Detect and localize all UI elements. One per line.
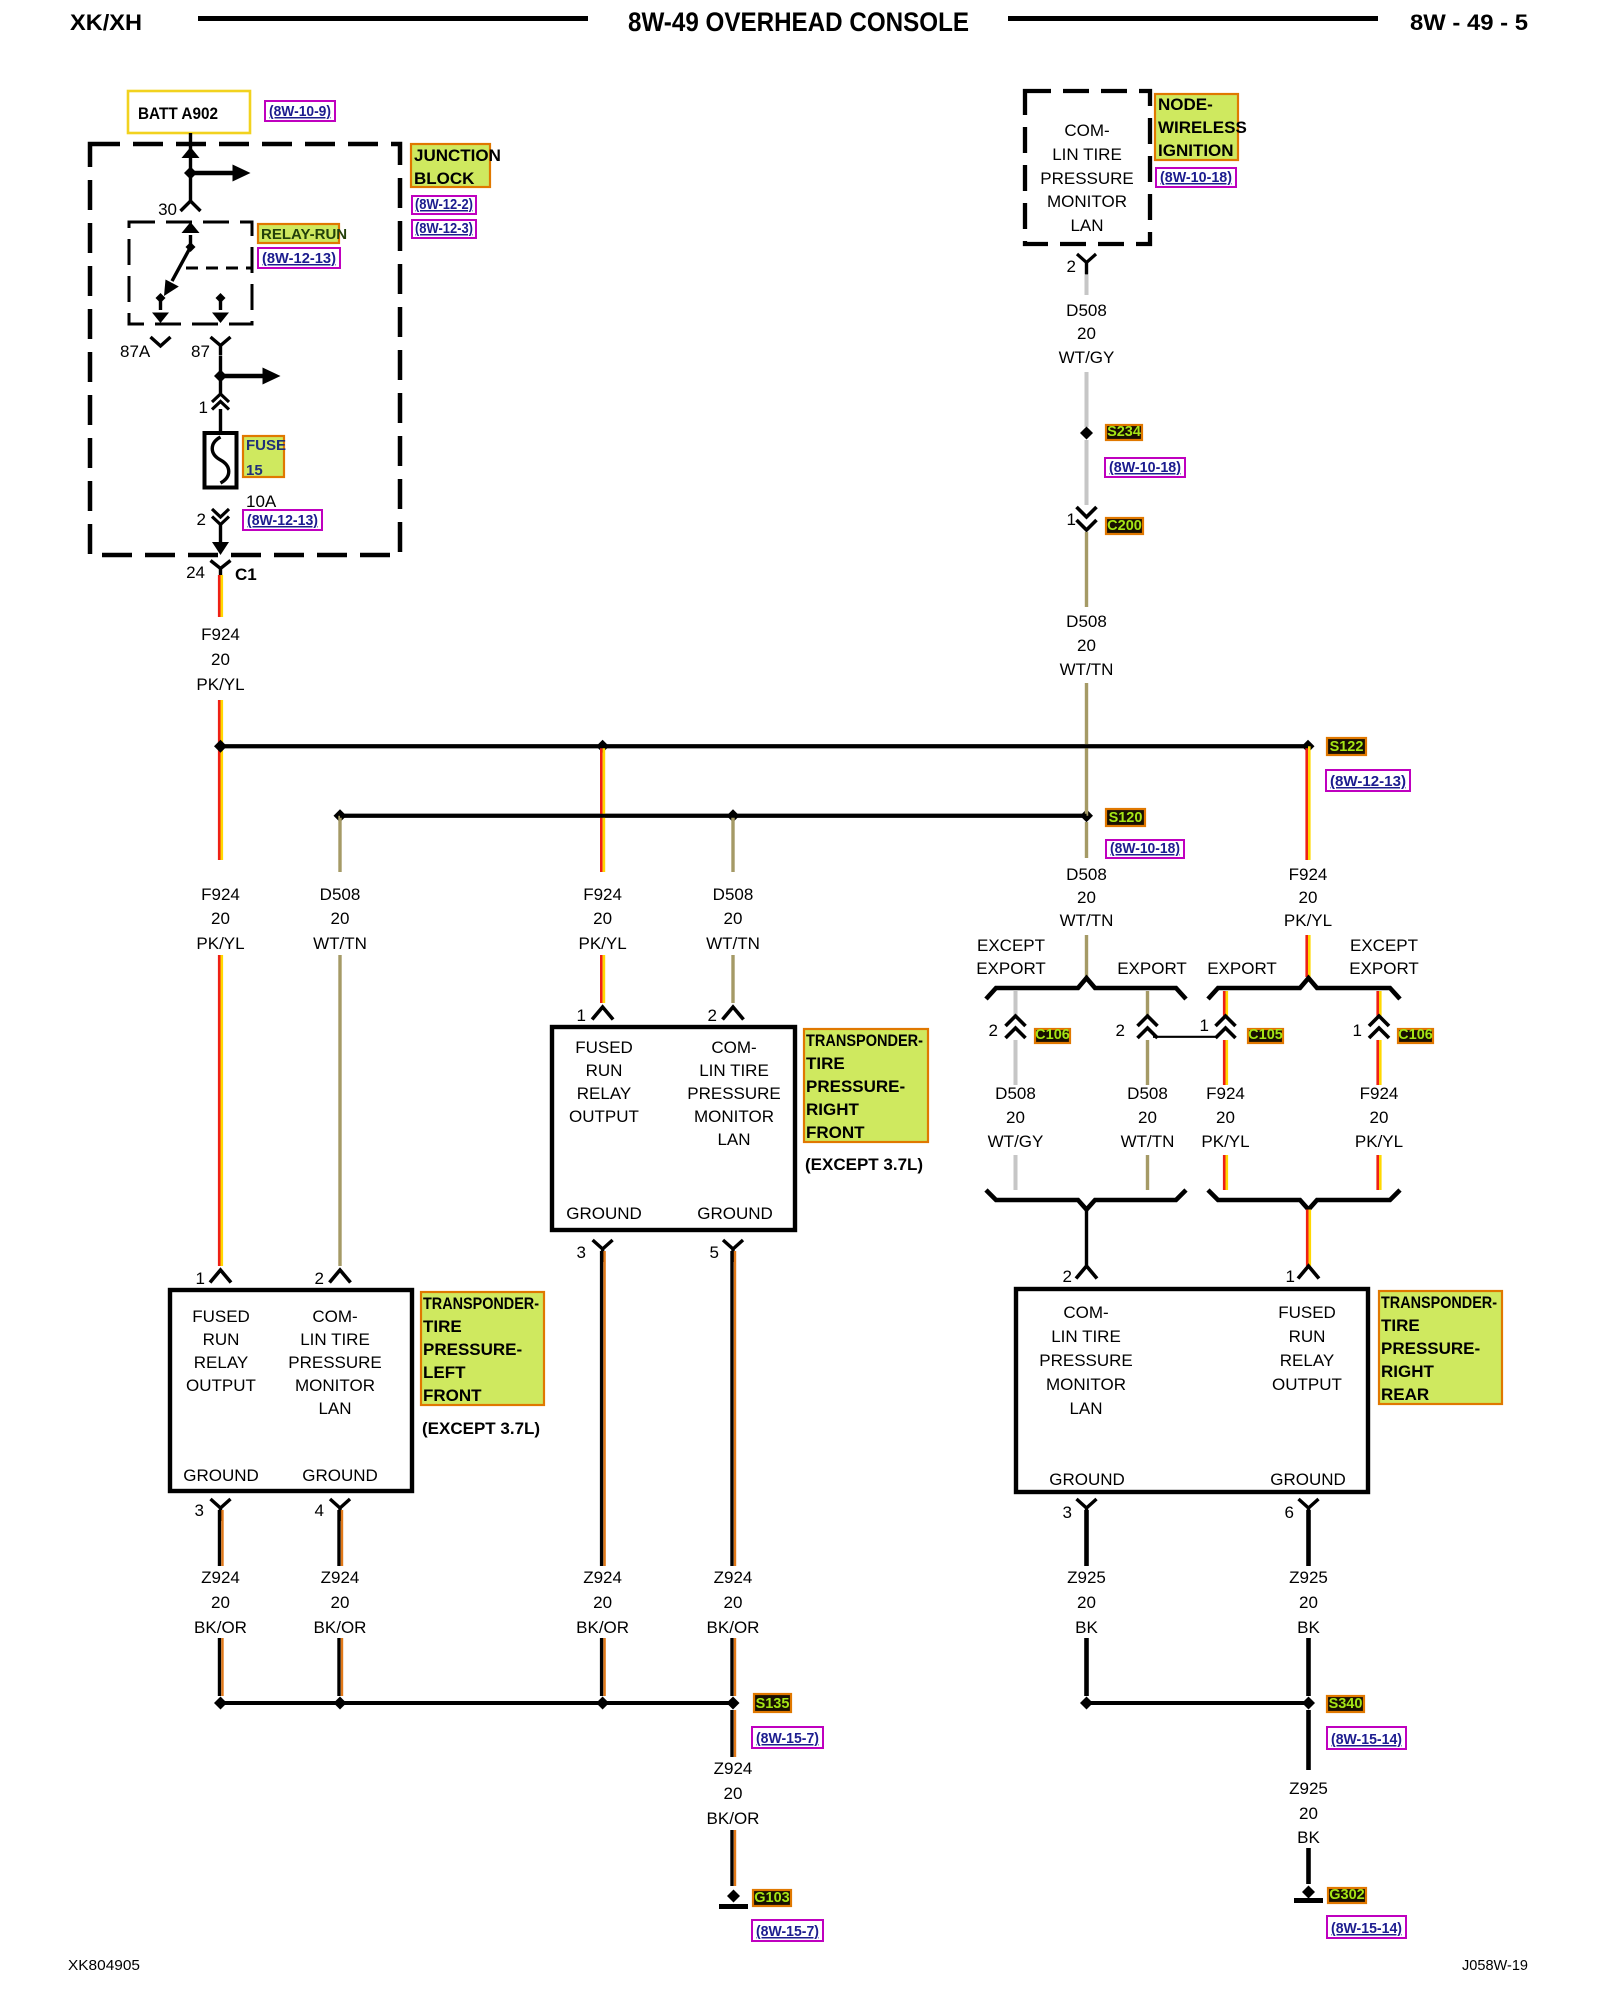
svg-text:EXPORT: EXPORT: [1117, 959, 1187, 978]
svg-text:COM-: COM-: [312, 1307, 357, 1326]
splice rail S122: [221, 744, 1309, 748]
svg-text:2: 2: [1116, 1021, 1125, 1040]
transponder left front pin 2 connector: [330, 1270, 351, 1283]
wire Z924 BK/OR from pin 3 x=602.6: [600, 1251, 603, 1566]
svg-text:WT/TN: WT/TN: [1060, 660, 1114, 679]
svg-text:20: 20: [593, 1593, 612, 1612]
svg-text:WT/TN: WT/TN: [1060, 911, 1114, 930]
link 8W-15-14 G302: [1327, 1916, 1406, 1938]
svg-text:87A: 87A: [120, 342, 151, 361]
wire fuse to junction block edge: [219, 524, 222, 546]
svg-text:20: 20: [1216, 1108, 1235, 1127]
wire relay 87 to fuse: [219, 356, 222, 394]
svg-text:RUN: RUN: [203, 1330, 240, 1349]
relay contact 87 node: [216, 293, 226, 303]
svg-text:1: 1: [1067, 510, 1076, 529]
splice label S234: [1106, 425, 1142, 440]
svg-text:(8W-10-18): (8W-10-18): [1109, 459, 1181, 476]
junction node battery feed: [184, 167, 197, 180]
branch wire F924 PK/YL below connector: [1223, 1040, 1226, 1085]
svg-text:20: 20: [211, 909, 230, 928]
svg-text:GROUND: GROUND: [1270, 1470, 1346, 1489]
relay-run label RELAY-RUN: [258, 224, 339, 243]
svg-text:(8W-12-13): (8W-12-13): [262, 250, 336, 267]
splice rail S122 overlay: [221, 744, 1309, 748]
svg-text:PRESSURE: PRESSURE: [1039, 1351, 1133, 1370]
wire D508 WT/GY segment 2: [1085, 372, 1089, 427]
wire F924 segment C1 down: [218, 575, 221, 617]
svg-text:WT/TN: WT/TN: [1121, 1132, 1175, 1151]
brace top right: [1208, 978, 1400, 999]
branch wire F924 PK/YL stub above connector: [1223, 991, 1226, 1016]
svg-text:2: 2: [197, 510, 206, 529]
svg-text:20: 20: [331, 909, 350, 928]
relay armature diagonal: [172, 247, 191, 281]
svg-text:Z925: Z925: [1289, 1779, 1328, 1798]
svg-text:NODE-: NODE-: [1158, 95, 1213, 114]
connector label C106: [1398, 1029, 1433, 1043]
svg-text:(8W-12-13): (8W-12-13): [247, 512, 318, 529]
svg-text:10A: 10A: [246, 492, 277, 511]
svg-text:3: 3: [577, 1243, 586, 1262]
svg-text:TRANSPONDER-: TRANSPONDER-: [423, 1294, 539, 1313]
svg-text:Z925: Z925: [1289, 1568, 1328, 1587]
transponder right front box: [552, 1027, 795, 1230]
splice label S340: [1327, 1696, 1364, 1712]
svg-text:PK/YL: PK/YL: [1284, 911, 1332, 930]
link 8W-12-2: [412, 196, 476, 214]
svg-text:S120: S120: [1109, 810, 1143, 826]
svg-text:20: 20: [211, 1593, 230, 1612]
svg-text:Z925: Z925: [1067, 1568, 1106, 1587]
svg-text:LEFT: LEFT: [423, 1363, 466, 1382]
ground label G103: [753, 1890, 791, 1906]
svg-text:20: 20: [1299, 888, 1318, 907]
svg-text:COM-: COM-: [711, 1038, 756, 1057]
svg-text:J058W-19: J058W-19: [1462, 1957, 1528, 1974]
svg-text:20: 20: [1077, 636, 1096, 655]
splice rail S135: [221, 1701, 734, 1705]
svg-text:BK/OR: BK/OR: [314, 1618, 367, 1637]
svg-text:G103: G103: [754, 1890, 789, 1906]
svg-text:TIRE: TIRE: [423, 1317, 462, 1336]
wire D508 left branch upper: [338, 816, 341, 872]
svg-text:FUSED: FUSED: [192, 1307, 250, 1326]
svg-text:LIN TIRE: LIN TIRE: [1052, 145, 1122, 164]
brace bottom left: [986, 1190, 1186, 1210]
svg-text:(8W-15-14): (8W-15-14): [1331, 1731, 1402, 1748]
svg-text:(EXCEPT 3.7L): (EXCEPT 3.7L): [805, 1155, 923, 1174]
svg-text:RIGHT: RIGHT: [806, 1100, 860, 1119]
wire battery feed into junction block: [189, 133, 192, 163]
svg-text:2: 2: [1067, 257, 1076, 276]
svg-text:20: 20: [1299, 1804, 1318, 1823]
ground G302 symbol: [1302, 1886, 1315, 1899]
svg-text:PK/YL: PK/YL: [1201, 1132, 1249, 1151]
branch connector chevron 3: [1216, 1016, 1236, 1026]
transponder left front pin 3 connector: [211, 1499, 231, 1508]
transponder right rear pin 6 connector: [1299, 1499, 1319, 1508]
svg-text:EXCEPT: EXCEPT: [1350, 936, 1418, 955]
wire fuse pin1 to fuse: [219, 409, 222, 433]
svg-text:6: 6: [1285, 1503, 1294, 1522]
svg-text:TIRE: TIRE: [806, 1054, 845, 1073]
svg-text:20: 20: [1077, 1593, 1096, 1612]
svg-text:(8W-10-18): (8W-10-18): [1110, 840, 1180, 857]
link 8W-15-7 G103: [752, 1920, 823, 1941]
svg-text:S234: S234: [1107, 424, 1141, 440]
brace top left: [986, 978, 1186, 999]
svg-text:WIRELESS: WIRELESS: [1158, 118, 1247, 137]
svg-text:2: 2: [708, 1006, 717, 1025]
transponder left front label: [421, 1292, 544, 1405]
node-wireless ignition dashed box: [1025, 91, 1150, 244]
splice node S135 x=340: [334, 1697, 347, 1710]
wire F924 right to brace: [1305, 935, 1308, 977]
arrowhead battery feed up: [182, 147, 200, 158]
svg-text:F924: F924: [1206, 1084, 1245, 1103]
svg-text:EXCEPT: EXCEPT: [977, 936, 1045, 955]
wire D508 WT/TN to S120: [1085, 683, 1088, 816]
relay pin 87A connector: [151, 337, 171, 346]
svg-text:BK: BK: [1297, 1828, 1320, 1847]
svg-text:3: 3: [1063, 1503, 1072, 1522]
branch wire F924 PK/YL below connector: [1376, 1040, 1379, 1085]
svg-text:1: 1: [196, 1269, 205, 1288]
wire Z924 BK/OR from pin 4 x=340: [337, 1510, 340, 1566]
wire Z924 BK/OR from pin 5 x=733: [730, 1251, 733, 1566]
svg-text:Z924: Z924: [201, 1568, 240, 1587]
transponder right front pin 2 connector: [723, 1007, 744, 1020]
branch wire D508 WT/GY stub above connector: [1014, 991, 1018, 1016]
splice rail S120 overlay: [340, 814, 1087, 818]
branch connector chevron 1: [1006, 1016, 1026, 1026]
svg-text:RELAY: RELAY: [194, 1353, 249, 1372]
splice node S122 right: [1302, 740, 1315, 753]
wire Z925 BK to ground G302: [1306, 1848, 1311, 1884]
svg-text:EXPORT: EXPORT: [976, 959, 1046, 978]
transponder right rear label: [1379, 1291, 1502, 1404]
branch connector chevron 4: [1369, 1016, 1389, 1026]
svg-text:MONITOR: MONITOR: [1047, 192, 1127, 211]
fuse pin 1 connector: [212, 394, 229, 402]
transponder right front pin 1 connector: [592, 1007, 613, 1020]
svg-text:PRESSURE: PRESSURE: [687, 1084, 781, 1103]
link 8W-12-13 S122: [1326, 770, 1410, 791]
svg-text:S340: S340: [1329, 1696, 1363, 1712]
svg-text:F924: F924: [201, 625, 240, 644]
transponder left front pin 1 connector: [210, 1270, 231, 1283]
svg-text:20: 20: [1299, 1593, 1318, 1612]
svg-text:WT/GY: WT/GY: [988, 1132, 1044, 1151]
svg-text:IGNITION: IGNITION: [1158, 141, 1234, 160]
svg-text:OUTPUT: OUTPUT: [186, 1376, 256, 1395]
wire Z924 BK/OR from pin 3 x=220.5: [218, 1510, 221, 1566]
connector C200 label: [1106, 518, 1143, 534]
ground label G302: [1328, 1888, 1366, 1903]
svg-text:MONITOR: MONITOR: [694, 1107, 774, 1126]
svg-text:C106: C106: [1035, 1027, 1070, 1043]
svg-text:MONITOR: MONITOR: [1046, 1375, 1126, 1394]
connector label C105: [1248, 1029, 1283, 1043]
svg-text:C1: C1: [235, 565, 257, 584]
relay internal dashed line: [186, 267, 252, 270]
splice node S120 left: [334, 809, 347, 822]
branch wire F924 PK/YL stub above connector: [1376, 991, 1379, 1016]
svg-text:RELAY: RELAY: [577, 1084, 632, 1103]
svg-text:8W - 49 - 5: 8W - 49 - 5: [1410, 10, 1528, 35]
transponder right front pin 5 connector: [723, 1240, 743, 1249]
svg-text:PK/YL: PK/YL: [1355, 1132, 1403, 1151]
link 8W-10-18 S234: [1105, 458, 1185, 477]
svg-text:OUTPUT: OUTPUT: [1272, 1375, 1342, 1394]
svg-text:LIN TIRE: LIN TIRE: [1051, 1327, 1121, 1346]
page header title rule left: [198, 16, 588, 21]
jog line between export connectors: [1153, 1036, 1217, 1038]
svg-text:D508: D508: [1127, 1084, 1168, 1103]
splice rail S340: [1087, 1701, 1309, 1705]
svg-text:(8W-12-13): (8W-12-13): [1330, 773, 1406, 790]
wire F924 right from S122: [1305, 746, 1308, 860]
wire D508 mid branch upper: [731, 816, 734, 872]
svg-text:(8W-15-7): (8W-15-7): [756, 1730, 819, 1747]
splice node S122 left: [214, 740, 227, 753]
branch wire D508 WT/GY above lower brace: [1014, 1155, 1018, 1190]
svg-text:PRESSURE-: PRESSURE-: [1381, 1339, 1480, 1358]
svg-text:20: 20: [211, 650, 230, 669]
svg-text:Z924: Z924: [714, 1759, 753, 1778]
arrow branch feed right: [191, 171, 233, 176]
svg-text:OUTPUT: OUTPUT: [569, 1107, 639, 1126]
svg-text:20: 20: [724, 1784, 743, 1803]
wire Z925 BK to splice S340 x=1308.5: [1306, 1638, 1311, 1696]
svg-text:C106: C106: [1398, 1027, 1433, 1043]
splice rail S120: [340, 814, 1087, 818]
arrowhead junction block output down: [212, 542, 229, 555]
svg-text:D508: D508: [1066, 612, 1107, 631]
svg-text:1: 1: [199, 398, 208, 417]
svg-text:LIN TIRE: LIN TIRE: [699, 1061, 769, 1080]
transponder left front pin 4 connector: [330, 1499, 350, 1508]
svg-text:20: 20: [593, 909, 612, 928]
svg-text:WT/GY: WT/GY: [1059, 348, 1115, 367]
node pin 2 connector: [1077, 254, 1096, 263]
wire F924 segment to S122: [218, 700, 221, 860]
transponder right front label: [804, 1029, 928, 1142]
link 8W-10-18 node: [1156, 168, 1236, 187]
svg-text:LAN: LAN: [1069, 1399, 1102, 1418]
svg-text:RUN: RUN: [1289, 1327, 1326, 1346]
wire F924 segment to left transponder: [218, 955, 221, 1266]
wire F924 to right-rear pin 1: [1306, 1210, 1309, 1267]
splice node S340 right: [1302, 1697, 1315, 1710]
transponder right front pin 3 connector: [593, 1240, 613, 1249]
svg-text:D508: D508: [1066, 865, 1107, 884]
branch wire D508 WT/GY below connector: [1014, 1040, 1018, 1085]
wire Z925 BK to splice S340 x=1086.5: [1084, 1638, 1089, 1696]
battery feed box BATT A902: [128, 91, 250, 133]
connector C1 pin 24 symbol: [211, 561, 231, 569]
branch connector chevron 2: [1138, 1016, 1158, 1026]
svg-text:RIGHT: RIGHT: [1381, 1362, 1435, 1381]
svg-text:C200: C200: [1107, 518, 1142, 534]
splice node S135 x=602.6: [596, 1697, 609, 1710]
link 8W-10-18 S120: [1106, 840, 1184, 858]
svg-text:(8W-12-3): (8W-12-3): [415, 220, 473, 237]
wire D508 left branch lower: [338, 955, 341, 1266]
svg-text:(8W-15-14): (8W-15-14): [1331, 1920, 1402, 1937]
fuse F15 body: [205, 433, 237, 488]
svg-text:D508: D508: [995, 1084, 1036, 1103]
svg-text:3: 3: [195, 1501, 204, 1520]
svg-text:FUSED: FUSED: [575, 1038, 633, 1057]
svg-text:WT/TN: WT/TN: [706, 934, 760, 953]
svg-text:GROUND: GROUND: [566, 1204, 642, 1223]
svg-text:20: 20: [1077, 888, 1096, 907]
svg-text:C105: C105: [1248, 1027, 1283, 1043]
svg-text:EXPORT: EXPORT: [1349, 959, 1419, 978]
branch wire D508 WT/TN below connector: [1146, 1040, 1149, 1085]
svg-text:30: 30: [158, 200, 177, 219]
branch wire D508 WT/TN stub above connector: [1146, 991, 1149, 1016]
relay coil arrow up: [182, 222, 200, 233]
svg-text:87: 87: [191, 342, 210, 361]
svg-text:LIN TIRE: LIN TIRE: [300, 1330, 370, 1349]
svg-text:PRESSURE: PRESSURE: [1040, 169, 1134, 188]
fuse label FUSE 15: [243, 436, 284, 477]
svg-text:20: 20: [724, 1593, 743, 1612]
transponder left front box: [170, 1290, 412, 1491]
link 8W-12-13 relay: [258, 248, 340, 268]
svg-text:LAN: LAN: [318, 1399, 351, 1418]
svg-text:XK804905: XK804905: [68, 1957, 140, 1974]
wire D508 mid branch lower: [731, 955, 734, 1003]
transponder right rear pin 1 connector: [1298, 1266, 1319, 1279]
relay contact 87A node: [156, 293, 166, 303]
relay armature pivot: [186, 242, 196, 252]
svg-text:GROUND: GROUND: [302, 1466, 378, 1485]
link 8W-10-9: [265, 101, 335, 121]
transponder right rear pin 3 connector: [1077, 1499, 1097, 1508]
junction block dashed outline: [90, 144, 400, 555]
wire F924 mid branch lower: [600, 955, 603, 1003]
svg-text:1: 1: [577, 1006, 586, 1025]
svg-text:2: 2: [315, 1269, 324, 1288]
svg-text:FRONT: FRONT: [806, 1123, 865, 1142]
svg-text:PRESSURE: PRESSURE: [288, 1353, 382, 1372]
svg-text:15: 15: [246, 462, 263, 479]
svg-text:BK: BK: [1297, 1618, 1320, 1637]
branch wire F924 PK/YL above lower brace: [1223, 1155, 1226, 1190]
svg-text:20: 20: [1370, 1108, 1389, 1127]
svg-text:20: 20: [1077, 324, 1096, 343]
splice node S122 mid: [596, 740, 609, 753]
ground G103 symbol: [727, 1890, 740, 1903]
svg-text:D508: D508: [713, 885, 754, 904]
wire Z924 BK/OR to splice S135 x=220.5: [218, 1638, 221, 1696]
svg-text:D508: D508: [1066, 301, 1107, 320]
arrow branch 87 right: [221, 374, 263, 379]
svg-text:PK/YL: PK/YL: [196, 934, 244, 953]
relay contact 87 arrow down: [219, 298, 222, 310]
svg-text:EXPORT: EXPORT: [1207, 959, 1277, 978]
svg-text:GROUND: GROUND: [183, 1466, 259, 1485]
svg-text:1: 1: [1200, 1016, 1209, 1035]
wire feed to relay pin 30: [189, 163, 192, 201]
wire Z925 BK below S340: [1306, 1710, 1311, 1770]
splice node S135 x=220.5: [214, 1697, 227, 1710]
link 8W-12-13 fuse: [243, 510, 322, 530]
svg-text:F924: F924: [201, 885, 240, 904]
wire Z924 BK/OR to splice S135 x=733: [730, 1638, 733, 1696]
svg-text:D508: D508: [320, 885, 361, 904]
splice node S135 x=733: [727, 1697, 740, 1710]
wire D508 WT/GY segment 3: [1085, 440, 1089, 505]
link 8W-15-14 S340: [1327, 1727, 1406, 1749]
splice label S120: [1106, 809, 1145, 826]
svg-text:20: 20: [1006, 1108, 1025, 1127]
svg-text:GROUND: GROUND: [697, 1204, 773, 1223]
connector label C106: [1035, 1029, 1070, 1043]
svg-text:PRESSURE-: PRESSURE-: [423, 1340, 522, 1359]
svg-text:PRESSURE-: PRESSURE-: [806, 1077, 905, 1096]
svg-text:RELAY-RUN: RELAY-RUN: [261, 226, 347, 243]
junction node 87 branch: [214, 370, 227, 383]
branch wire D508 WT/TN above lower brace: [1146, 1155, 1149, 1190]
relay contact 87A arrow down: [159, 298, 162, 310]
svg-text:2: 2: [1063, 1267, 1072, 1286]
splice node S234: [1080, 427, 1093, 440]
svg-text:BK/OR: BK/OR: [576, 1618, 629, 1637]
transponder right rear pin 2 connector: [1076, 1266, 1097, 1279]
relay pin 30 connector: [181, 201, 201, 211]
wire Z924 BK/OR to ground G103: [730, 1830, 733, 1886]
brace bottom right: [1208, 1190, 1400, 1210]
svg-text:MONITOR: MONITOR: [295, 1376, 375, 1395]
svg-text:TIRE: TIRE: [1381, 1316, 1420, 1335]
wire Z924 BK/OR to splice S135 x=602.6: [600, 1638, 603, 1696]
wire Z924 BK/OR below S135: [730, 1710, 733, 1757]
wire D508 WT/TN to brace: [1085, 935, 1088, 977]
link 8W-12-3: [412, 220, 476, 238]
wire Z925 BK from pin 6 x=1308.5: [1306, 1510, 1311, 1566]
page header title rule right: [1008, 16, 1378, 21]
svg-text:(EXCEPT 3.7L): (EXCEPT 3.7L): [422, 1419, 540, 1438]
svg-text:BK: BK: [1075, 1618, 1098, 1637]
svg-text:BLOCK: BLOCK: [414, 169, 475, 188]
wire Z925 BK from pin 3 x=1086.5: [1084, 1510, 1089, 1566]
svg-text:COM-: COM-: [1064, 121, 1109, 140]
splice label S122: [1327, 738, 1366, 755]
relay-run dashed outline: [129, 222, 252, 324]
svg-text:FRONT: FRONT: [423, 1386, 482, 1405]
svg-text:BK/OR: BK/OR: [707, 1809, 760, 1828]
svg-text:(8W-15-7): (8W-15-7): [756, 1923, 819, 1940]
svg-text:TRANSPONDER-: TRANSPONDER-: [806, 1031, 923, 1050]
wire D508 WT/TN below S120: [1085, 822, 1088, 858]
transponder right rear box: [1016, 1289, 1368, 1492]
link 8W-15-7 S135: [752, 1727, 823, 1748]
svg-text:LAN: LAN: [1070, 216, 1103, 235]
branch wire F924 PK/YL above lower brace: [1376, 1155, 1379, 1190]
svg-text:(8W-10-18): (8W-10-18): [1160, 169, 1232, 186]
svg-text:PK/YL: PK/YL: [578, 934, 626, 953]
svg-text:F924: F924: [583, 885, 622, 904]
svg-text:(8W-10-9): (8W-10-9): [269, 103, 331, 120]
svg-text:S122: S122: [1330, 739, 1364, 755]
svg-text:F924: F924: [1289, 865, 1328, 884]
svg-text:24: 24: [186, 563, 205, 582]
